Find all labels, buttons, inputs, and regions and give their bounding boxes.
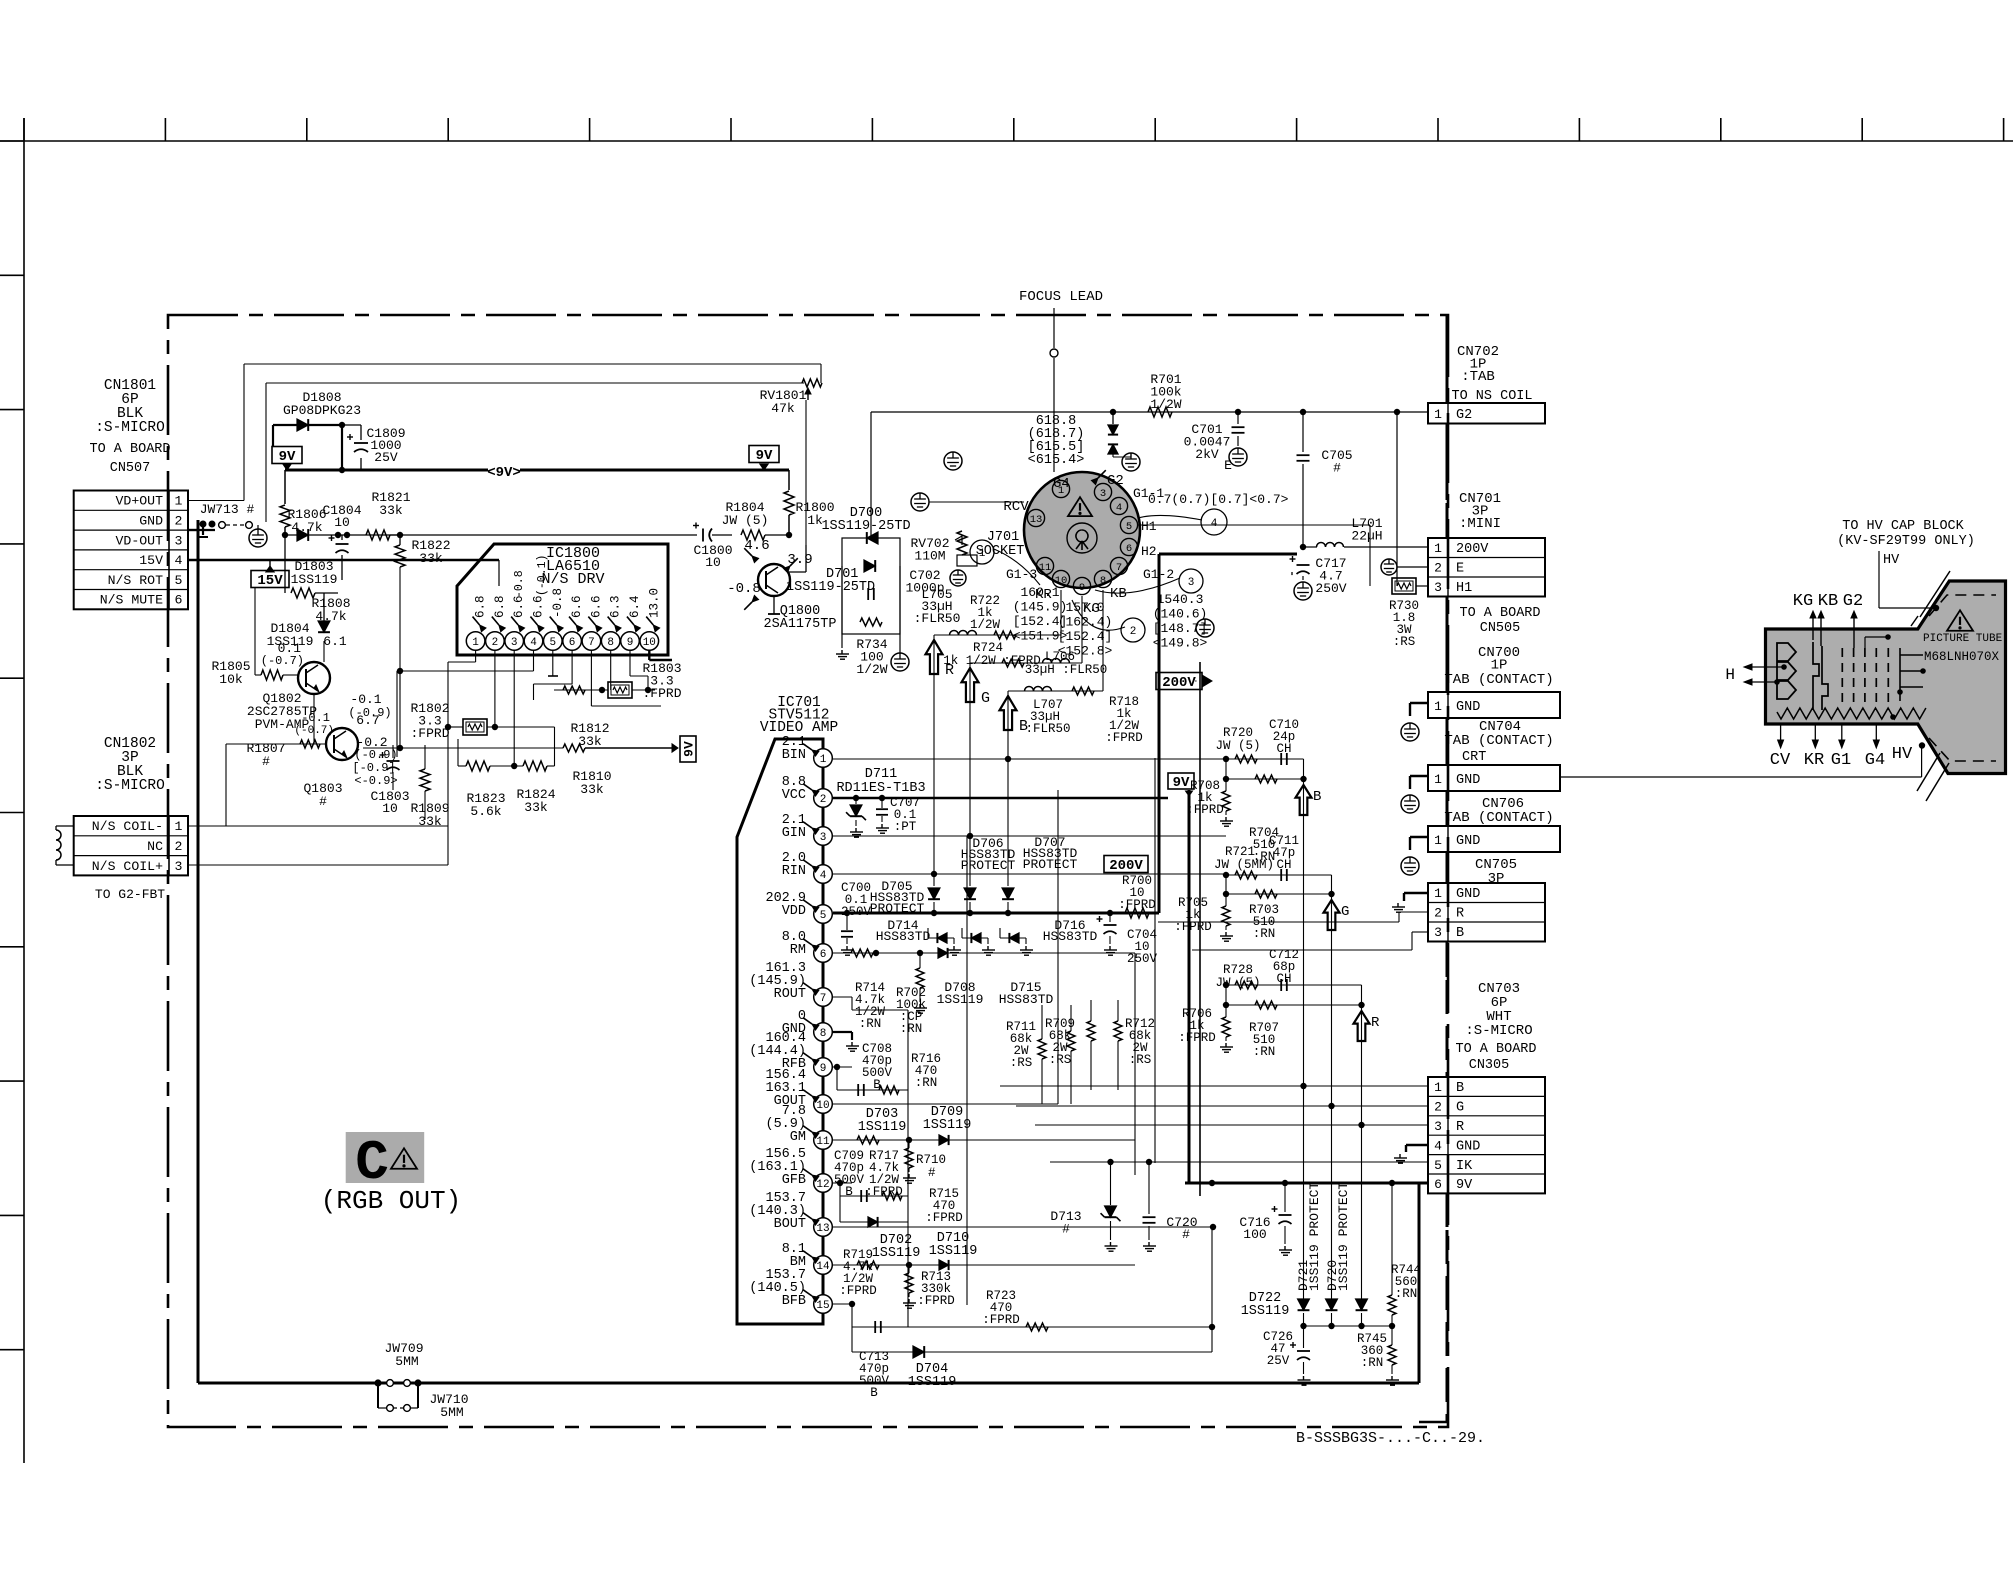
svg-text::RN: :RN	[915, 1076, 938, 1090]
svg-text:3: 3	[1434, 580, 1442, 595]
svg-text:6.6: 6.6	[589, 595, 603, 618]
IC701 pins	[814, 749, 833, 768]
wire pin15 BFB	[832, 1303, 852, 1305]
connector CN1802 3P table	[74, 816, 188, 875]
svg-text::FPRD: :FPRD	[982, 1313, 1020, 1327]
svg-text:9V: 9V	[756, 448, 773, 464]
socket center key	[1067, 523, 1097, 553]
connector CN703 box	[1428, 1077, 1545, 1193]
wire: 200V tap vertical	[1199, 662, 1201, 1196]
svg-text:CN507: CN507	[110, 461, 151, 476]
svg-text:R728: R728	[1223, 963, 1253, 977]
wire pin3 GIN	[832, 835, 1226, 837]
svg-text:R720: R720	[1223, 726, 1253, 740]
wire: 9V bus	[285, 469, 789, 472]
svg-text:9: 9	[820, 1063, 827, 1075]
diode below GFB	[839, 1210, 841, 1222]
arrow G	[962, 668, 979, 702]
svg-text:1SS119: 1SS119	[923, 1118, 972, 1133]
svg-text:3: 3	[1188, 577, 1195, 589]
earth gnd above socket right	[944, 452, 962, 470]
svg-text:1: 1	[472, 637, 479, 649]
9V box rotated	[680, 736, 697, 762]
svg-text:D711: D711	[865, 767, 897, 782]
svg-text:3P: 3P	[1488, 871, 1505, 887]
svg-text:2: 2	[1434, 561, 1442, 576]
PICTURE TUBE labels	[1947, 610, 1973, 630]
svg-text:IK: IK	[1456, 1159, 1473, 1174]
svg-text:(140.6): (140.6)	[1153, 607, 1208, 622]
svg-text:CH: CH	[1276, 858, 1291, 872]
wire row with D1803/C1804/R1821	[188, 529, 198, 531]
svg-text:GIN: GIN	[782, 826, 806, 841]
resistor R710 #	[905, 1148, 913, 1168]
svg-text:PROTECT: PROTECT	[1023, 857, 1078, 872]
svg-text:1SS119 PROTECT: 1SS119 PROTECT	[1336, 1182, 1351, 1291]
svg-text::RN: :RN	[859, 1017, 882, 1031]
wire: 15V row	[188, 559, 499, 562]
svg-text:4: 4	[1211, 518, 1218, 530]
svg-text:R: R	[945, 662, 954, 679]
wire KG drive row	[970, 662, 1082, 664]
svg-text:6: 6	[175, 593, 183, 608]
wire KR drive row	[934, 634, 1061, 636]
ground (earth) at JW713	[249, 529, 267, 547]
svg-text::RN: :RN	[1395, 1287, 1418, 1301]
diode pair at G2	[1112, 412, 1114, 424]
svg-text:RIN: RIN	[782, 864, 806, 879]
capacitor C704 10 250V	[1104, 924, 1117, 926]
svg-text:B: B	[873, 1078, 881, 1092]
bus below CN705	[1446, 941, 1449, 977]
svg-text:10: 10	[643, 637, 656, 649]
jumper JW710 5MM	[377, 1383, 379, 1408]
svg-text:GND: GND	[1456, 700, 1480, 715]
svg-text:HV: HV	[1883, 553, 1900, 568]
svg-text::RN: :RN	[1361, 1356, 1384, 1370]
svg-text:H2: H2	[1141, 544, 1157, 559]
svg-text:R: R	[1456, 1120, 1464, 1135]
svg-text:1SS119 PROTECT: 1SS119 PROTECT	[1307, 1182, 1322, 1291]
svg-text:(-0.9): (-0.9)	[354, 748, 397, 762]
svg-text:H1: H1	[1141, 519, 1157, 534]
svg-text:(KV-SF29T99 ONLY): (KV-SF29T99 ONLY)	[1837, 534, 1975, 549]
capacitor C1809 1000 25V	[339, 422, 345, 428]
svg-text:J701: J701	[987, 530, 1019, 545]
svg-text:2kV: 2kV	[1195, 447, 1219, 462]
svg-text:TAB (CONTACT): TAB (CONTACT)	[1444, 672, 1553, 688]
ground chassis	[841, 650, 843, 654]
svg-text:6.3: 6.3	[609, 595, 623, 618]
wire KB drive row	[1008, 690, 1103, 692]
resistor R1803 3.3 :FPRD	[554, 689, 608, 691]
svg-text:VCC: VCC	[782, 788, 806, 803]
svg-text:H: H	[1725, 666, 1735, 684]
bottom protect diodes	[1298, 1299, 1310, 1310]
board designator C (RGB OUT)	[346, 1132, 425, 1183]
svg-text:-0.1: -0.1	[350, 692, 381, 707]
svg-text::FPRD: :FPRD	[925, 1211, 963, 1225]
ruler ticks left	[0, 140, 24, 142]
svg-text:3: 3	[820, 832, 827, 844]
wire loop top	[244, 363, 821, 365]
cap+res row below RFB	[836, 1067, 838, 1090]
svg-text:M68LNH070X: M68LNH070X	[1924, 650, 2000, 664]
svg-text:10: 10	[816, 1100, 829, 1112]
svg-text:VDD: VDD	[782, 904, 806, 919]
svg-text:KB: KB	[1110, 586, 1127, 602]
svg-text:FOCUS LEAD: FOCUS LEAD	[1019, 289, 1103, 305]
capacitor C707 0.1 :PT	[876, 808, 888, 810]
svg-text:7: 7	[820, 993, 827, 1005]
connector CN705 box	[1446, 852, 1449, 883]
svg-text:200V: 200V	[1109, 858, 1143, 874]
op-amp IC701 STV5112 VIDEO AMP block	[737, 739, 823, 1324]
svg-text:<615.4>: <615.4>	[1028, 453, 1085, 468]
svg-text::FPRD: :FPRD	[917, 1294, 955, 1308]
CN705 R/B jogged wires	[1399, 911, 1428, 913]
transistor Q1802 2SC2785TP PVM-AMP	[298, 662, 330, 694]
svg-text:12: 12	[816, 1179, 829, 1191]
svg-text:BIN: BIN	[782, 748, 806, 763]
svg-text::FPRD: :FPRD	[642, 686, 681, 701]
svg-text:1SS119-25TD: 1SS119-25TD	[786, 580, 875, 595]
svg-text:B: B	[1313, 789, 1321, 805]
svg-text:6: 6	[1434, 1177, 1442, 1192]
svg-text:2: 2	[1130, 626, 1137, 638]
circled ref numbers	[970, 540, 994, 564]
svg-text:33µH :FLR50: 33µH :FLR50	[1025, 663, 1108, 677]
9V box at R1800	[749, 446, 779, 465]
svg-text:TO A BOARD: TO A BOARD	[89, 442, 170, 457]
gnd elbow CN704	[1410, 775, 1428, 777]
svg-text:B: B	[1456, 1081, 1464, 1096]
svg-text:TO G2-FBT: TO G2-FBT	[95, 887, 165, 902]
svg-text:10: 10	[382, 801, 398, 816]
svg-text:1/2W: 1/2W	[1150, 397, 1181, 412]
svg-text:6.1: 6.1	[323, 634, 347, 649]
wire CRT gnd to picture tube	[1560, 776, 1922, 778]
svg-text:1: 1	[1434, 833, 1442, 848]
svg-text:KB: KB	[1818, 592, 1838, 611]
resistor R1822 33k	[399, 535, 401, 545]
off-page 9V marker	[488, 462, 520, 478]
svg-text:5MM: 5MM	[440, 1405, 463, 1420]
svg-text:13.0: 13.0	[647, 588, 661, 618]
wires from CN1802 to right	[188, 825, 448, 827]
wire pin14 BM	[832, 1264, 1135, 1266]
svg-text:B: B	[870, 1386, 878, 1400]
svg-text:33k: 33k	[578, 734, 602, 749]
wire pin9 RFB	[832, 1066, 852, 1068]
svg-text:3: 3	[511, 637, 518, 649]
tube heater electrodes	[1777, 643, 1796, 699]
svg-text:6.6: 6.6	[532, 595, 546, 618]
R711 R709 R712 R7xx verticals	[1038, 1039, 1046, 1059]
wires to CN703 pins	[1000, 1085, 1428, 1087]
HV lead bottom with CRT gnd wire	[1921, 746, 1923, 778]
svg-text:10: 10	[334, 515, 350, 530]
svg-text:33k: 33k	[580, 782, 604, 797]
svg-text:4: 4	[530, 637, 537, 649]
svg-text::RN: :RN	[900, 1022, 923, 1036]
ground left of socket	[911, 493, 929, 511]
svg-text:N/S ROT: N/S ROT	[108, 573, 163, 588]
connector CN704 box (CRT GND)	[1446, 718, 1449, 765]
wire: VDD bus horizontal	[833, 912, 1159, 915]
H lead wires	[1746, 666, 1784, 668]
svg-text::FPRD: :FPRD	[1118, 898, 1156, 912]
svg-text:110M: 110M	[914, 549, 945, 564]
ruler ticks top	[23, 118, 25, 141]
svg-text:3: 3	[1434, 925, 1442, 940]
svg-text:4: 4	[1434, 1138, 1442, 1153]
svg-text:33k: 33k	[379, 503, 403, 518]
transistor Q1803	[326, 728, 358, 760]
wire: bottom ground bus	[198, 1382, 1419, 1385]
svg-text:100: 100	[1243, 1227, 1266, 1242]
svg-text:TO A BOARD: TO A BOARD	[1455, 1042, 1536, 1057]
svg-text:N/S MUTE: N/S MUTE	[100, 593, 163, 608]
svg-text:E: E	[1456, 562, 1464, 577]
picture tube M68LNH070X (grey funnel)	[1766, 581, 2006, 774]
svg-text:TO A BOARD: TO A BOARD	[1459, 606, 1540, 621]
svg-text:250V: 250V	[1127, 952, 1158, 966]
svg-text:1: 1	[175, 494, 183, 509]
svg-text:KR: KR	[1804, 751, 1824, 770]
svg-text:#: #	[928, 1166, 936, 1180]
svg-text:5: 5	[175, 573, 183, 588]
wire pin10 GOUT	[832, 1103, 1058, 1105]
svg-text:GP08DPKG23: GP08DPKG23	[283, 403, 361, 418]
svg-text:JW713 #: JW713 #	[200, 502, 255, 517]
connector CN1801 6P table	[74, 491, 188, 610]
wire: main ground bus left vertical	[197, 520, 200, 1383]
svg-text:G: G	[981, 690, 990, 707]
pot RV1801 47k	[802, 379, 822, 387]
wire pin4 RIN	[832, 873, 1226, 875]
svg-text:JW (5): JW (5)	[1215, 739, 1260, 753]
svg-text::MINI: :MINI	[1459, 516, 1501, 532]
svg-text:5: 5	[1434, 1158, 1442, 1173]
connector CN706 box	[1446, 791, 1449, 826]
arrow B	[1000, 696, 1017, 730]
svg-text:10k: 10k	[219, 672, 243, 687]
svg-text:N/S COIL+: N/S COIL+	[92, 859, 163, 874]
15V box	[251, 571, 289, 590]
svg-text:2: 2	[492, 637, 499, 649]
svg-text::FPRD: :FPRD	[839, 1284, 877, 1298]
svg-text:160.1: 160.1	[1020, 585, 1059, 600]
svg-text:4: 4	[820, 870, 827, 882]
svg-text:-0.8: -0.8	[513, 570, 526, 598]
svg-text:(162.4): (162.4)	[1058, 615, 1113, 630]
anode structure right	[1900, 648, 1923, 701]
right bus thick vertical	[1446, 315, 1449, 403]
svg-text:N/S DRV: N/S DRV	[541, 571, 604, 588]
svg-text:6: 6	[820, 949, 827, 961]
svg-text:2: 2	[175, 839, 183, 854]
svg-text:5: 5	[549, 637, 556, 649]
gnd elbow CN703 pin4	[1406, 1144, 1428, 1146]
svg-text:47k: 47k	[771, 401, 795, 416]
svg-text:6.8: 6.8	[493, 595, 507, 618]
capacitor C1800 10	[400, 535, 690, 537]
svg-text:G: G	[1341, 904, 1349, 920]
wire pin11 GM	[832, 1139, 1135, 1141]
svg-text:9V: 9V	[1173, 775, 1190, 791]
svg-text:CV: CV	[1770, 751, 1791, 770]
svg-text:8: 8	[1100, 575, 1106, 587]
svg-text:<149.8>: <149.8>	[1153, 636, 1208, 651]
board border (dash-dot)	[168, 315, 1448, 1427]
diode D704 row	[851, 1327, 853, 1352]
breaker marks bottom	[1917, 753, 1940, 791]
svg-text:5: 5	[820, 910, 827, 922]
G2 inner wire	[1865, 636, 1888, 638]
svg-text:5: 5	[1126, 521, 1132, 533]
svg-text:R: R	[1371, 1015, 1380, 1031]
warning triangle in socket	[1068, 497, 1092, 516]
svg-text:11: 11	[816, 1136, 830, 1148]
svg-text:4: 4	[175, 553, 183, 568]
svg-text:(145.9): (145.9)	[1013, 600, 1068, 615]
svg-text:G4: G4	[1865, 751, 1885, 770]
boxed resistor R730	[1291, 574, 1293, 576]
svg-text:GND: GND	[1456, 1139, 1480, 1154]
gnd elbow CN700	[1410, 702, 1428, 704]
svg-text::S-MICRO: :S-MICRO	[95, 778, 165, 794]
svg-text:10: 10	[705, 555, 721, 570]
svg-text:HSS83TD: HSS83TD	[876, 929, 931, 944]
svg-text:9: 9	[1079, 582, 1085, 594]
resistor R700 10 :FPRD	[1125, 908, 1149, 918]
svg-text:TAB (CONTACT): TAB (CONTACT)	[1444, 733, 1553, 749]
svg-text:13: 13	[816, 1223, 829, 1235]
svg-text:1SS119: 1SS119	[872, 1246, 921, 1261]
connector CN702 box	[1428, 403, 1545, 424]
wire pin7 ROUT	[832, 996, 852, 998]
svg-text:1: 1	[1434, 699, 1442, 714]
ruler left line	[23, 118, 25, 1463]
svg-text:#: #	[262, 754, 270, 769]
svg-text:13: 13	[1030, 514, 1043, 526]
svg-text:HSS83TD: HSS83TD	[1043, 929, 1098, 944]
ruler top line	[0, 140, 2013, 142]
R702 vertical	[916, 968, 924, 988]
svg-text:1: 1	[1434, 772, 1442, 787]
long vertical feedback wires	[907, 1010, 909, 1327]
leader curves	[994, 549, 1040, 585]
svg-text:15V: 15V	[139, 553, 163, 568]
svg-text:9V: 9V	[279, 449, 296, 465]
svg-text:(-0.7): (-0.7)	[294, 725, 334, 737]
svg-text:G1: G1	[1831, 751, 1851, 770]
svg-text:200V: 200V	[1456, 542, 1489, 557]
svg-text:CN305: CN305	[1469, 1058, 1510, 1073]
arrow R	[926, 640, 943, 674]
svg-text:R: R	[1456, 907, 1464, 922]
svg-text::FLR50: :FLR50	[914, 611, 961, 626]
KG KB electrodes	[1813, 642, 1828, 710]
svg-text:6.8: 6.8	[474, 595, 488, 618]
svg-text:R724: R724	[973, 641, 1003, 655]
wire pin6 RM	[832, 952, 1135, 954]
svg-text:RD11ES-T1B3: RD11ES-T1B3	[836, 781, 925, 796]
zener at VCC	[850, 805, 862, 816]
svg-text:1SS119-25TD: 1SS119-25TD	[821, 519, 910, 534]
svg-text:H1: H1	[1456, 581, 1472, 596]
svg-text:SOCKET: SOCKET	[976, 544, 1025, 559]
svg-text:<-0.9>: <-0.9>	[354, 774, 397, 788]
wire IK row	[1050, 1161, 1428, 1163]
svg-text:G2: G2	[1456, 408, 1472, 423]
svg-text:1SS119: 1SS119	[291, 572, 338, 587]
connector CN701 box	[1428, 538, 1545, 597]
svg-text:(-0.7): (-0.7)	[261, 654, 304, 668]
capacitor C1804 10	[335, 532, 341, 538]
svg-text:B: B	[845, 1185, 853, 1199]
svg-text::FPRD: :FPRD	[1178, 1031, 1216, 1045]
svg-text:1: 1	[820, 754, 827, 766]
bus below CN703	[1446, 1193, 1449, 1227]
svg-text:1: 1	[1434, 886, 1442, 901]
svg-text:HV: HV	[1892, 745, 1913, 764]
svg-text:RCV: RCV	[1003, 499, 1029, 515]
svg-text:7: 7	[588, 637, 595, 649]
wire pin13 BOUT	[832, 1226, 1213, 1228]
svg-text:2SA1175TP: 2SA1175TP	[764, 617, 837, 632]
vdd bus dots	[931, 910, 937, 916]
gnd elbow CN705 pin1	[1404, 892, 1428, 894]
arrow B right	[1296, 785, 1312, 815]
svg-text:3: 3	[175, 859, 183, 874]
svg-text:GND: GND	[1456, 834, 1480, 849]
arrow G right	[1324, 900, 1340, 930]
svg-text::S-MICRO: :S-MICRO	[95, 420, 165, 436]
svg-text:GM: GM	[790, 1130, 806, 1145]
ground earth	[891, 653, 909, 671]
svg-text:E: E	[1224, 458, 1232, 473]
svg-text:1: 1	[1434, 407, 1442, 422]
svg-text:7: 7	[1116, 562, 1122, 574]
svg-text::RS: :RS	[1129, 1053, 1152, 1067]
capacitor C705 #	[1302, 412, 1304, 452]
svg-text:KG: KG	[1793, 592, 1813, 611]
connector CN700 box	[1428, 692, 1560, 718]
svg-text:33k: 33k	[419, 551, 443, 566]
wire: 200V rail vertical	[1158, 554, 1161, 913]
svg-text:9: 9	[627, 637, 634, 649]
R/G/B input columns	[933, 635, 935, 874]
svg-text::TAB: :TAB	[1461, 369, 1495, 385]
svg-text:2: 2	[1434, 906, 1442, 921]
coil at CN1802 (NS coil)	[56, 825, 74, 827]
svg-text:1: 1	[1434, 1080, 1442, 1095]
svg-text:G4: G4	[1053, 476, 1070, 492]
svg-text:8: 8	[820, 1028, 827, 1040]
svg-text::RN: :RN	[1253, 927, 1276, 941]
svg-text:B: B	[1456, 926, 1464, 941]
svg-text:BFB: BFB	[782, 1294, 806, 1309]
getter zigzag	[1777, 708, 1926, 719]
svg-text:2: 2	[175, 514, 183, 529]
capacitor C720 #	[1148, 1162, 1150, 1214]
diode network box	[842, 538, 900, 634]
resistor R1809 33k	[420, 769, 430, 791]
svg-text::PT: :PT	[894, 820, 917, 834]
wire pin8 GND	[832, 1031, 852, 1033]
